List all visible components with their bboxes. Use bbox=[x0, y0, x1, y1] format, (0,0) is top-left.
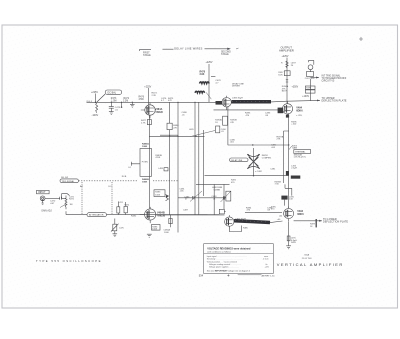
svg-text:2.2K: 2.2K bbox=[152, 95, 157, 97]
svg-text:GAIN ADJ: GAIN ADJ bbox=[41, 209, 51, 212]
label L488 R488 bbox=[212, 187, 223, 189]
resistor R488 box bbox=[226, 191, 231, 201]
svg-text:1M: 1M bbox=[70, 204, 73, 206]
capacitor C493 box bbox=[305, 72, 315, 80]
grid stopper lower (black) bbox=[281, 196, 287, 200]
svg-text:GAIN: GAIN bbox=[292, 147, 298, 150]
test point TP493 bbox=[308, 60, 314, 72]
label input bias bbox=[87, 101, 93, 103]
wire lower delay out bbox=[270, 221, 283, 223]
wire int trig takeoff bbox=[310, 77, 319, 79]
junction dot (R483) bbox=[166, 195, 168, 197]
svg-text:INPUT: INPUT bbox=[38, 191, 46, 194]
capacitor C480 label bbox=[182, 112, 188, 116]
resistor R480A label bbox=[142, 143, 149, 148]
svg-text:DC: DC bbox=[109, 186, 113, 188]
delay line bar upper bbox=[232, 100, 272, 104]
node -100V bbox=[92, 114, 99, 117]
wire grid hook bbox=[285, 184, 292, 205]
capacitor C488 (series) bbox=[221, 192, 231, 203]
title small number bbox=[302, 254, 313, 260]
label termination bbox=[262, 154, 272, 159]
svg-text:STAGE: STAGE bbox=[221, 53, 229, 56]
label SECOND STAGE bbox=[221, 52, 231, 56]
label R485 bbox=[243, 228, 249, 230]
svg-text:C487: C487 bbox=[183, 210, 189, 212]
resistor R473 label bbox=[111, 98, 117, 102]
label C478 bbox=[215, 80, 221, 84]
resistor R483B labels bbox=[155, 155, 162, 159]
capacitor C483 (series) bbox=[190, 191, 202, 202]
svg-text:27K: 27K bbox=[173, 128, 177, 130]
svg-text:L493 30µH: L493 30µH bbox=[232, 97, 243, 99]
node +225V (input stage) bbox=[91, 91, 98, 94]
ground (C473) bbox=[109, 112, 114, 115]
resistor R472 label bbox=[123, 98, 130, 102]
label R480B left bbox=[122, 176, 127, 178]
tube V493B lower left output bbox=[225, 215, 234, 229]
svg-text:½6DJ8: ½6DJ8 bbox=[157, 214, 166, 218]
label C496 bbox=[289, 196, 295, 200]
svg-text:+225V: +225V bbox=[206, 61, 213, 64]
inductor L478 bbox=[200, 82, 210, 84]
svg-text:470K: 470K bbox=[155, 157, 160, 159]
label L494 bbox=[291, 166, 297, 170]
svg-text:3.9K: 3.9K bbox=[200, 74, 205, 76]
node grid stopper (black) upper bbox=[216, 101, 223, 105]
svg-text:STAGE: STAGE bbox=[143, 54, 151, 57]
svg-text:CIRCUIT V5: CIRCUIT V5 bbox=[322, 80, 335, 82]
resistor R478 labels bbox=[200, 70, 206, 76]
ground (input bus) bbox=[130, 102, 135, 107]
svg-text:AMPLIFIER: AMPLIFIER bbox=[279, 48, 294, 52]
resistor R474 label bbox=[161, 98, 174, 102]
shield dashed vertical 2 bbox=[111, 182, 113, 215]
resistor R490 box bbox=[281, 61, 296, 68]
resistor R482 label (grid) bbox=[131, 215, 137, 217]
svg-text:100K: 100K bbox=[164, 232, 169, 234]
label delay line drive bbox=[232, 82, 244, 87]
junction dots on bus bbox=[169, 136, 197, 137]
pointer (peaking) bbox=[206, 93, 211, 100]
INPUT box bbox=[37, 190, 50, 194]
capacitor C470 bbox=[50, 197, 61, 205]
label R493 470 bbox=[245, 113, 271, 117]
wire V493B cathode loop bbox=[229, 226, 241, 232]
svg-text:1.5K: 1.5K bbox=[289, 199, 294, 201]
svg-text:TYPE 555 OSCILLOSCOPE: TYPE 555 OSCILLOSCOPE bbox=[36, 259, 102, 263]
cathode resistor R486 box bbox=[152, 225, 161, 231]
svg-text:6DK6: 6DK6 bbox=[297, 213, 304, 216]
wire left branch bbox=[284, 131, 289, 183]
wire lower bus bbox=[205, 175, 289, 177]
DC BAL callout oval bbox=[97, 90, 122, 102]
wire second stage bottom bus bbox=[178, 197, 226, 199]
footer type label bbox=[36, 259, 102, 263]
compensation trimmer below attenuator bbox=[111, 219, 125, 234]
svg-text:AC: AC bbox=[80, 185, 83, 188]
resistor R479 drop bbox=[164, 215, 173, 234]
label INT TRIG SIGNAL bbox=[322, 75, 347, 83]
wire lower conductor upper delay bbox=[214, 109, 284, 111]
note row 3 bbox=[207, 261, 237, 264]
attenuator network C472 R472 bbox=[117, 202, 130, 215]
ground (V484B cathode) bbox=[147, 234, 152, 237]
svg-text:B497: B497 bbox=[282, 91, 288, 93]
svg-text:555A: 555A bbox=[304, 254, 309, 257]
svg-text:534: 534 bbox=[199, 274, 204, 278]
svg-text:+225V: +225V bbox=[144, 85, 151, 88]
label 0.5mA bbox=[271, 145, 298, 150]
FROM LOWER BEAM oval bbox=[60, 177, 79, 183]
resistor R483 box bbox=[154, 190, 165, 197]
wire to lower deflection plate bbox=[294, 220, 322, 222]
label C483 bbox=[184, 196, 190, 200]
svg-text:47K: 47K bbox=[230, 122, 234, 124]
tube V484B bbox=[140, 207, 156, 223]
resistor R480B label bbox=[142, 178, 149, 183]
potentiometer R480 box bbox=[140, 149, 152, 177]
junction dot bbox=[253, 175, 254, 176]
DISTRIBUTED oval bbox=[230, 158, 249, 162]
footer page number bbox=[199, 274, 204, 278]
stub C472 bbox=[121, 102, 123, 108]
resistor R480 box bbox=[167, 103, 179, 216]
cathode blob V494 bbox=[286, 115, 289, 118]
resistor R474 label bbox=[152, 93, 158, 97]
label T1 bbox=[291, 121, 297, 125]
wire V494B cathode bbox=[288, 222, 290, 246]
inductor L479 bbox=[195, 91, 205, 93]
wire ticks V497 column bbox=[286, 80, 288, 82]
svg-text:DC BAL: DC BAL bbox=[108, 91, 117, 94]
svg-text:R4 B: R4 B bbox=[122, 176, 127, 178]
wire V484B plate out bbox=[156, 214, 225, 216]
svg-text:7.5K: 7.5K bbox=[275, 184, 280, 186]
node +225V (output) bbox=[282, 55, 289, 58]
cathode labels R477 bbox=[141, 120, 147, 124]
wire to gain pot bbox=[61, 194, 69, 199]
wire V493A cathode column bbox=[227, 107, 229, 145]
title VERTICAL AMPLIFIER bbox=[277, 262, 344, 267]
svg-text:47K: 47K bbox=[168, 100, 172, 102]
svg-text:½6DJ8: ½6DJ8 bbox=[155, 110, 163, 114]
capacitor C490 box bbox=[216, 126, 227, 133]
svg-text:2.7K: 2.7K bbox=[141, 123, 146, 125]
junction dots bbox=[95, 102, 133, 104]
ATTENUATOR oval bbox=[87, 213, 107, 217]
svg-text:AB·RRT 1-61: AB·RRT 1-61 bbox=[262, 274, 276, 277]
wire output interstage bus bbox=[228, 144, 289, 146]
wire screen column V494 bbox=[288, 113, 290, 208]
tube V493A upper left output bbox=[222, 96, 231, 110]
label TO UPPER DEFLECTION PLATE bbox=[322, 97, 347, 103]
svg-text:DEFLECTION PLATE: DEFLECTION PLATE bbox=[322, 100, 347, 103]
label C488 bbox=[211, 189, 220, 200]
svg-text:+225V: +225V bbox=[282, 55, 289, 58]
wire upper delay out bbox=[271, 100, 320, 102]
note title bbox=[207, 248, 251, 251]
svg-text:COMPEN: COMPEN bbox=[262, 157, 272, 159]
tube V493B grid parts bbox=[208, 209, 226, 214]
label L486 bbox=[189, 129, 194, 131]
wire attenuator output bbox=[107, 214, 208, 216]
label V494B bbox=[297, 210, 304, 216]
svg-text:+100: +100 bbox=[291, 124, 297, 126]
junction dots (plate bus) bbox=[177, 102, 195, 103]
wire dashed trig line bbox=[79, 180, 178, 182]
label L495 R495 bbox=[291, 238, 297, 244]
resistor R476 label bbox=[139, 97, 145, 101]
svg-text:+100V: +100V bbox=[302, 96, 309, 98]
resistor R498 boxes bbox=[305, 86, 315, 93]
resistor R496B (black) bbox=[291, 176, 301, 179]
svg-text:+350V: +350V bbox=[292, 87, 299, 89]
svg-text:± CRL: ± CRL bbox=[296, 115, 303, 117]
node junction black bbox=[286, 171, 289, 175]
registration mark bbox=[359, 37, 363, 41]
note rule bbox=[204, 253, 274, 255]
wire right link bbox=[196, 183, 230, 185]
label C484A bbox=[235, 218, 246, 220]
svg-text:= C482: = C482 bbox=[255, 171, 263, 173]
svg-text:SEL SW: SEL SW bbox=[61, 177, 68, 179]
wire bowtie drop bbox=[253, 148, 255, 176]
footer date bbox=[262, 274, 276, 277]
label OUTPUT AMPLIFIER bbox=[279, 45, 294, 52]
svg-text:DELAY LINE WIRES: DELAY LINE WIRES bbox=[174, 47, 202, 51]
tube V494 upper right output bbox=[282, 101, 292, 117]
label TO LOWER DEFLECTION PLATE bbox=[323, 218, 348, 224]
footer tick bbox=[227, 274, 229, 276]
resistor R471 vertical bbox=[96, 103, 98, 113]
wire +225V feed bbox=[208, 64, 210, 102]
svg-text:VOLTAGE READINGS were obtained: VOLTAGE READINGS were obtained bbox=[207, 248, 251, 251]
svg-text:R471: R471 bbox=[69, 199, 75, 201]
node +225V (V484A plate) bbox=[144, 85, 151, 88]
note row 5 bbox=[209, 265, 269, 268]
tube V484A bbox=[141, 103, 155, 118]
svg-text:+225: +225 bbox=[265, 266, 269, 268]
wire to upper deflection plate bbox=[317, 100, 320, 102]
svg-text:2.5µH: 2.5µH bbox=[291, 168, 297, 170]
label thermal note bbox=[294, 155, 306, 159]
capacitor C473 bbox=[109, 102, 121, 111]
node +350V bbox=[292, 87, 299, 89]
svg-text:Sensitivity . . . . . . . . .: Sensitivity . . . . . . . . . . . . . . … bbox=[207, 257, 243, 260]
label V484A bbox=[155, 108, 163, 114]
voltage readings note box bbox=[204, 244, 274, 274]
note row 2 bbox=[207, 257, 269, 260]
delay line crossover (bowtie) bbox=[247, 154, 259, 169]
vertical x223 bbox=[223, 184, 225, 209]
note subtitle bbox=[207, 250, 231, 253]
wire long rail C bbox=[198, 103, 200, 215]
svg-text:VERTICAL AMPLIFIER: VERTICAL AMPLIFIER bbox=[277, 262, 344, 267]
footer rule bbox=[238, 274, 262, 276]
note important bbox=[207, 269, 250, 272]
svg-text:R495: R495 bbox=[291, 242, 297, 244]
resistor R493 box bbox=[278, 71, 290, 77]
wire interstage bus bbox=[149, 135, 204, 137]
svg-text:100K: 100K bbox=[155, 194, 160, 196]
svg-text:DRIVER: DRIVER bbox=[232, 86, 240, 88]
resistor R470 (gain pot) bbox=[60, 196, 67, 210]
wire +225V drop bbox=[95, 94, 97, 103]
wire upper conductor lower delay bbox=[245, 212, 282, 214]
svg-text:Voltage power supplies . .: Voltage power supplies . . . . . . . . .… bbox=[209, 265, 239, 268]
wire long rail A bbox=[177, 103, 179, 233]
wire input lead bbox=[45, 197, 60, 199]
svg-text:+225V: +225V bbox=[91, 91, 98, 94]
svg-text:21 61 TU4: 21 61 TU4 bbox=[302, 258, 313, 260]
label C486 bbox=[230, 140, 236, 144]
wire position feed bbox=[131, 162, 140, 166]
wire second bus bbox=[160, 134, 178, 136]
label V484B bbox=[157, 212, 166, 218]
label L489 C489 bbox=[246, 208, 273, 212]
label C480B bbox=[128, 167, 132, 169]
THERMAL box bbox=[294, 150, 311, 154]
svg-text:with conditions as follows:: with conditions as follows: bbox=[207, 250, 231, 253]
tube V494B lower right output bbox=[284, 207, 294, 222]
wire TP drop bbox=[309, 79, 311, 101]
shield dashed vertical 1 bbox=[81, 182, 83, 215]
ground (V494B) bbox=[286, 246, 291, 249]
label grid V494B bbox=[271, 207, 283, 218]
label GAIN ADJ bbox=[41, 209, 51, 212]
svg-text:6DK6: 6DK6 bbox=[296, 110, 303, 113]
svg-text:100K: 100K bbox=[142, 181, 148, 183]
label C482 bbox=[255, 169, 276, 173]
svg-text:-100V: -100V bbox=[92, 114, 99, 117]
wire output plate supply bbox=[286, 58, 288, 104]
label R492 470 bbox=[231, 180, 237, 184]
wire C478 tick bbox=[211, 76, 215, 78]
wire long rail D bbox=[203, 130, 205, 196]
grid stopper V494 (black) bbox=[278, 108, 284, 114]
resistor R490 box bbox=[215, 116, 237, 125]
wire plate supply bbox=[147, 88, 149, 105]
label AC DC bbox=[80, 185, 112, 188]
label C1A R1A bbox=[69, 196, 75, 206]
svg-text:.2 v/cm: .2 v/cm bbox=[263, 258, 270, 260]
wire first-stage grid bus bbox=[87, 101, 145, 103]
svg-text:See also IMPORTANT voltage not: See also IMPORTANT voltage note on diagr… bbox=[207, 269, 250, 272]
svg-text:THERMAL: THERMAL bbox=[295, 151, 306, 154]
label +225V rail C bbox=[206, 61, 213, 64]
pointer L486 bbox=[191, 131, 216, 137]
resistor R499 vertical bbox=[310, 219, 316, 228]
wire long rail B bbox=[194, 103, 196, 216]
svg-text:ATTENUATOR: ATTENUATOR bbox=[89, 214, 104, 217]
label C487 bbox=[183, 210, 189, 212]
label L493 bbox=[232, 97, 243, 99]
svg-text:R482: R482 bbox=[131, 215, 137, 217]
svg-text:8.2K: 8.2K bbox=[278, 74, 283, 76]
resistor R484 diagonal bbox=[166, 195, 169, 201]
inductor L483 bbox=[158, 168, 168, 171]
svg-text:470K: 470K bbox=[139, 99, 145, 101]
label V494 bbox=[296, 107, 303, 113]
input connector J1 bbox=[40, 196, 45, 204]
svg-text:POSN: POSN bbox=[142, 162, 148, 164]
delay line bar lower bbox=[234, 221, 270, 223]
svg-text:27K: 27K bbox=[277, 139, 281, 141]
svg-text:100K: 100K bbox=[142, 146, 148, 148]
wire attenuator input bbox=[66, 211, 87, 214]
note row 1 bbox=[207, 255, 268, 258]
resistor box cathode V494B bbox=[287, 236, 290, 241]
label R496A bbox=[282, 85, 289, 92]
vertical x214 bbox=[213, 184, 215, 214]
label R497A bbox=[277, 135, 284, 140]
label +2 values col bbox=[180, 188, 186, 192]
resistor R477 box bbox=[147, 120, 151, 125]
svg-text:C481: C481 bbox=[270, 169, 276, 171]
svg-text:L488 R488: L488 R488 bbox=[212, 187, 223, 189]
junction dot bbox=[252, 144, 289, 145]
svg-text:TRIG SIGNAL: TRIG SIGNAL bbox=[62, 180, 76, 183]
node +100V bbox=[302, 96, 309, 98]
label R496 bbox=[275, 182, 282, 186]
label CRT bbox=[296, 115, 303, 117]
note row 4 bbox=[209, 263, 268, 266]
svg-text:1.5K RL(25T): 1.5K RL(25T) bbox=[294, 157, 306, 159]
svg-text:DEFLECTION PLATE: DEFLECTION PLATE bbox=[323, 221, 348, 224]
label first stage (left of bracket) bbox=[143, 52, 151, 56]
label +40V bbox=[277, 219, 281, 221]
svg-text:C488B: C488B bbox=[214, 189, 221, 191]
delay line dimension arrows bbox=[140, 48, 239, 51]
svg-text:DELAY LINE: DELAY LINE bbox=[231, 159, 243, 162]
wire cathode column V484 bbox=[148, 115, 150, 208]
ground (attenuator) bbox=[113, 234, 118, 237]
svg-text:100K: 100K bbox=[152, 229, 157, 231]
wire first stage plate bus bbox=[145, 101, 216, 103]
pointer to thermal bbox=[289, 146, 292, 150]
